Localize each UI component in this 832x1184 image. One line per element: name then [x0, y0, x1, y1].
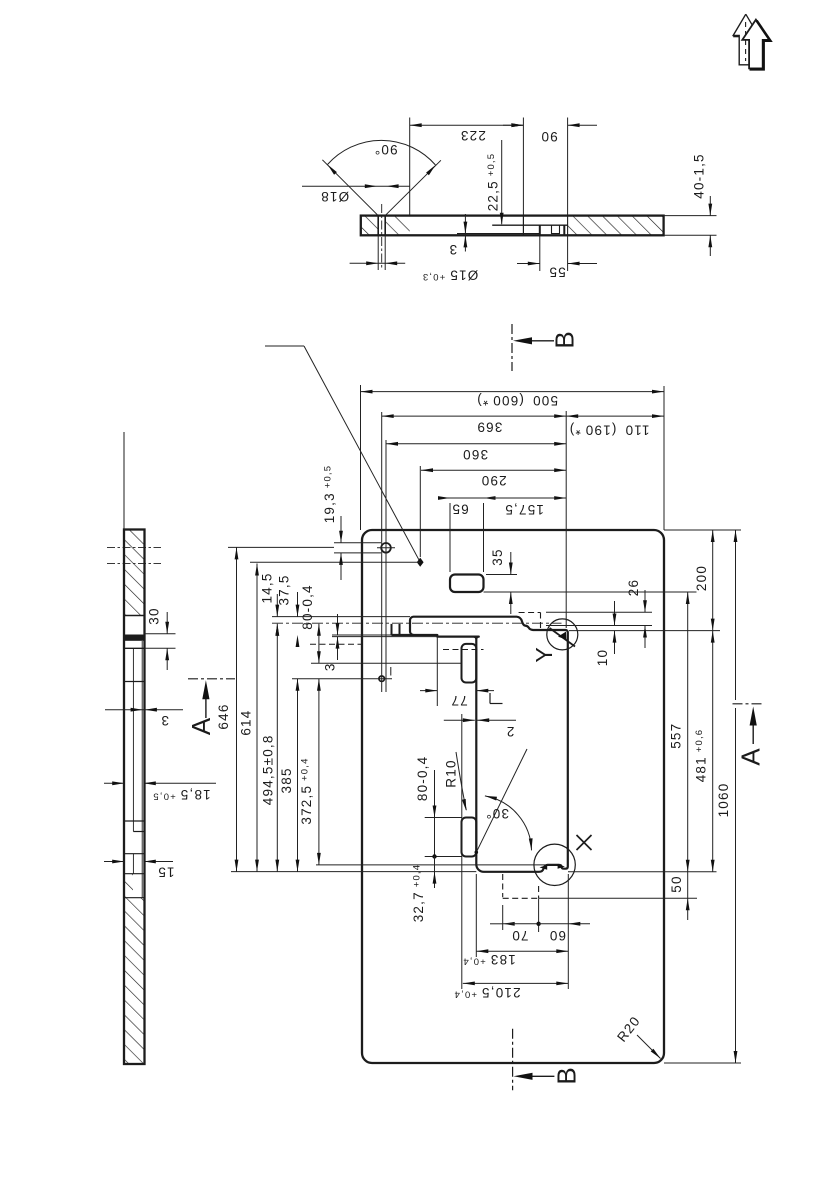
datum target Y [547, 619, 578, 650]
svg-text:70: 70 [511, 928, 528, 943]
dimension R10 [456, 752, 466, 810]
dimension 369 [382, 415, 567, 417]
left view line 853.7 [124, 853, 145, 855]
ext slot top y817.5 [425, 817, 462, 819]
ext lines 30 [145, 633, 176, 635]
svg-text:614: 614 [238, 710, 253, 736]
hatch boundary 567.5 [567, 216, 569, 236]
datum target X [534, 844, 575, 885]
dimension 77 [420, 690, 437, 692]
dimension 210.5+0.4 [463, 982, 569, 984]
dimension 80-0.4 upper [318, 624, 320, 663]
hidden recess edges [502, 874, 504, 897]
left view step line 615.5 [124, 615, 145, 617]
hole centerline [381, 204, 383, 270]
ext y864.9 [316, 864, 545, 866]
ext bottom edge right [664, 1062, 741, 1064]
svg-text:500 (600 *): 500 (600 *) [476, 393, 558, 408]
svg-text:15: 15 [157, 865, 174, 880]
dimension diameter 18 [302, 185, 410, 187]
svg-text:30: 30 [147, 607, 162, 624]
dimension 30deg [485, 796, 532, 851]
ext bottom y871.8 right [568, 871, 717, 873]
ext x664 up [663, 386, 665, 530]
dimension diameter 15 +0.3 [350, 262, 406, 264]
ext x362 up [360, 385, 362, 530]
hidden edge y644.3 [310, 643, 363, 645]
section B-B mark top [511, 324, 513, 371]
reference tick near 77 [489, 693, 491, 704]
svg-text:55: 55 [548, 264, 565, 279]
section A-A mark right [733, 703, 762, 705]
ext x462.8 down [461, 714, 463, 989]
dimension 2 [444, 719, 475, 721]
small hole [379, 676, 384, 681]
bold edge at 540 [539, 225, 541, 235]
hole ext lines 19.3 [334, 542, 381, 544]
dimension 65 [438, 497, 450, 499]
left view centerline above [123, 432, 125, 530]
ext hidden y612.3 [546, 611, 652, 613]
ext x538.6 down [538, 899, 540, 932]
svg-text:3: 3 [322, 662, 337, 671]
ext y547.4 [228, 546, 334, 548]
recess step line (22.5 deep) [492, 224, 567, 226]
ext x386 [385, 440, 387, 692]
ext line x523.4 [522, 118, 524, 216]
section A-A mark left [188, 678, 235, 680]
dimension 26 [644, 590, 646, 612]
edge at 523 [522, 216, 524, 236]
ext x502.7 down [502, 905, 504, 930]
svg-text:290: 290 [481, 473, 507, 488]
svg-text:494,5±0,8: 494,5±0,8 [260, 734, 275, 805]
left view line 648.3 [124, 647, 145, 649]
svg-text:3: 3 [160, 713, 169, 728]
svg-text:30°: 30° [485, 806, 509, 821]
dimension 500 (600*) [361, 391, 665, 393]
svg-text:10: 10 [595, 649, 610, 666]
leader to datum point [265, 345, 304, 347]
svg-text:R10: R10 [444, 759, 459, 787]
dimension 35 [510, 552, 512, 575]
svg-text:77: 77 [450, 693, 467, 708]
dimension 15 [104, 861, 124, 863]
dimension 90deg arc [328, 140, 436, 165]
ext line x567.5 below [567, 235, 569, 271]
left view inner vert 133.4a [132, 648, 134, 831]
upper slot on wall [462, 644, 477, 683]
lower slot on wall [462, 818, 477, 857]
dimension 3 (web) [105, 709, 183, 711]
ext y636.6 left [332, 636, 437, 638]
left view inner vert 133.4b [132, 854, 134, 874]
dimension 646 [236, 547, 238, 871]
dimension 223 [410, 124, 524, 126]
dimension 385 [297, 679, 299, 872]
dimension 90 [503, 124, 523, 126]
svg-text:3: 3 [448, 242, 457, 257]
top slot (65x35) [450, 575, 484, 593]
ext line x409.7 [409, 118, 411, 216]
left view line 831.5 [133, 831, 144, 833]
svg-text:80-0,4: 80-0,4 [415, 756, 430, 801]
ext lines thickness [664, 215, 717, 217]
ext bottom y871.6 left [231, 871, 476, 873]
plate outline [362, 530, 664, 1063]
bold edge at 564 [563, 225, 565, 235]
left view line 873.7 [124, 873, 145, 875]
ext line x539.8 below [539, 235, 541, 271]
svg-text:A: A [186, 717, 216, 735]
left view line 821 [124, 820, 145, 822]
dimension 22.5+0.5 [501, 140, 503, 224]
svg-text:110 (190 *): 110 (190 *) [569, 422, 650, 437]
svg-text:50: 50 [669, 875, 684, 892]
cutout contour [410, 617, 568, 872]
svg-text:37,5: 37,5 [277, 574, 292, 605]
left view line 681.5 [124, 681, 145, 683]
svg-text:157,5: 157,5 [504, 502, 544, 517]
dimension 80-0.4 lower [434, 770, 436, 818]
dimension 110 (190*) [566, 415, 664, 417]
dimension 614 [256, 564, 258, 872]
dimension 32.7+0.4 [434, 857, 436, 889]
ext x566.2 [565, 411, 567, 628]
ext x381.7 [381, 412, 383, 692]
dimension 494.5 [276, 624, 278, 872]
left view hatching [124, 530, 145, 616]
dimension R20 [637, 1035, 661, 1059]
ext line x567.5 [567, 118, 569, 216]
ext y616.6 left [272, 616, 410, 618]
dimension 200 [712, 530, 714, 631]
svg-text:14,5: 14,5 [260, 572, 275, 603]
svg-text:80-0,4: 80-0,4 [300, 584, 315, 629]
ext x437.3 [436, 637, 438, 706]
left view hole centerline 1 [107, 546, 161, 548]
hidden edge y649.5 [443, 649, 484, 651]
left view solid web band [124, 635, 145, 641]
ext lines hole [377, 235, 379, 270]
svg-text:2: 2 [506, 724, 515, 739]
section B-B plate outline [361, 216, 664, 236]
ext y635 left [332, 634, 410, 636]
revision/up-arrow symbol [733, 14, 749, 65]
dimension 14.5 [276, 594, 278, 617]
dimension 557 [687, 592, 689, 872]
svg-text:200: 200 [694, 565, 709, 591]
left view web line 142.8 [141, 641, 143, 898]
svg-text:646: 646 [216, 703, 231, 729]
left view outline [124, 530, 145, 1065]
dimension 157.5 [484, 497, 567, 499]
svg-text:90°: 90° [374, 142, 398, 157]
ext y898.3 [538, 897, 697, 899]
ext slot bottom y592 [484, 591, 697, 593]
ext y630.6 [569, 630, 720, 632]
dimension 10 [614, 601, 616, 626]
svg-text:26: 26 [626, 579, 641, 596]
left notch [391, 624, 393, 635]
dimension 183+0.4 [476, 950, 568, 952]
tongue centerline [272, 622, 562, 624]
ext y678.7 hole line [292, 678, 392, 680]
dimension 481+0.6 [712, 631, 714, 872]
svg-text:40-1,5: 40-1,5 [692, 153, 707, 198]
svg-text:65: 65 [451, 501, 468, 516]
ext y625.5 [546, 625, 652, 627]
svg-text:B: B [551, 1067, 581, 1084]
dimension 3 (lip) [464, 214, 466, 252]
svg-text:369: 369 [476, 419, 502, 434]
dimension 19.3+0.5 [340, 516, 342, 543]
dimension 372.5 [318, 679, 320, 865]
countersink 90deg construction lines [322, 160, 378, 216]
ext x568.3 down [567, 874, 569, 989]
ext slot top y574.5 [486, 574, 517, 576]
dimension 50 [687, 872, 689, 899]
svg-text:Ø18: Ø18 [320, 189, 349, 204]
3mm lip line [457, 233, 540, 235]
ext slot bottom y856.5 [425, 856, 462, 858]
30deg construction line [476, 749, 527, 852]
keyway notch [552, 225, 560, 233]
svg-text:B: B [549, 331, 579, 348]
section B-B mark bottom [512, 1029, 514, 1091]
dimension 1060 [735, 530, 737, 700]
hole bore lines (Ø15) [377, 216, 379, 236]
svg-text:A: A [735, 748, 765, 766]
ext y663.2 [311, 662, 462, 664]
dimension 70 [490, 923, 503, 925]
dimension 37.5 [297, 592, 299, 617]
cutout lower-left edge [392, 635, 477, 639]
svg-text:557: 557 [668, 723, 683, 749]
svg-text:90: 90 [540, 129, 557, 144]
ext x450 [449, 503, 451, 572]
svg-text:60: 60 [549, 928, 566, 943]
dimension 55 [517, 263, 540, 265]
dimension 60 [539, 923, 569, 925]
hidden edge near Y [519, 612, 541, 614]
svg-text:223: 223 [460, 128, 486, 143]
svg-text:360: 360 [462, 447, 488, 462]
svg-text:385: 385 [279, 767, 294, 793]
dimension 360 [386, 443, 566, 445]
ext x483.5 [483, 503, 485, 572]
dimension 18.5+0.5 [104, 782, 124, 784]
ext x476.3 down [475, 874, 477, 957]
dimension 30 [166, 612, 168, 634]
section B-B hatching [361, 216, 378, 236]
left view hole centerline 2 [107, 563, 161, 565]
dimension 3 (step) [337, 614, 339, 635]
dimension 290 [421, 469, 566, 471]
left view line 897.7 [124, 897, 145, 899]
ext top edge right [664, 529, 741, 531]
dimension 40-1.5 [709, 196, 711, 216]
ext y562.3 [250, 561, 420, 563]
svg-text:35: 35 [490, 548, 505, 565]
hole dia 19.3 [381, 543, 391, 553]
svg-text:Y: Y [531, 647, 557, 662]
svg-text:1060: 1060 [716, 783, 731, 818]
ext x420.3 [419, 466, 421, 557]
